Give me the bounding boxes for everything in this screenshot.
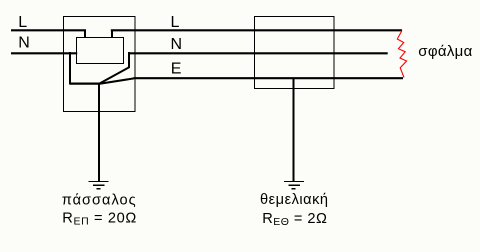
- svg-text:θεμελιακή: θεμελιακή: [260, 192, 328, 208]
- svg-text:L: L: [171, 14, 180, 31]
- svg-text:N: N: [18, 35, 30, 52]
- svg-text:RΕΘ = 2Ω: RΕΘ = 2Ω: [262, 211, 327, 228]
- svg-text:E: E: [171, 61, 182, 78]
- svg-text:N: N: [171, 36, 183, 53]
- svg-text:RΕΠ = 20Ω: RΕΠ = 20Ω: [62, 211, 136, 228]
- svg-text:πάσσαλος: πάσσαλος: [62, 193, 136, 209]
- svg-text:σφάλμα: σφάλμα: [418, 43, 472, 60]
- svg-text:L: L: [18, 14, 27, 31]
